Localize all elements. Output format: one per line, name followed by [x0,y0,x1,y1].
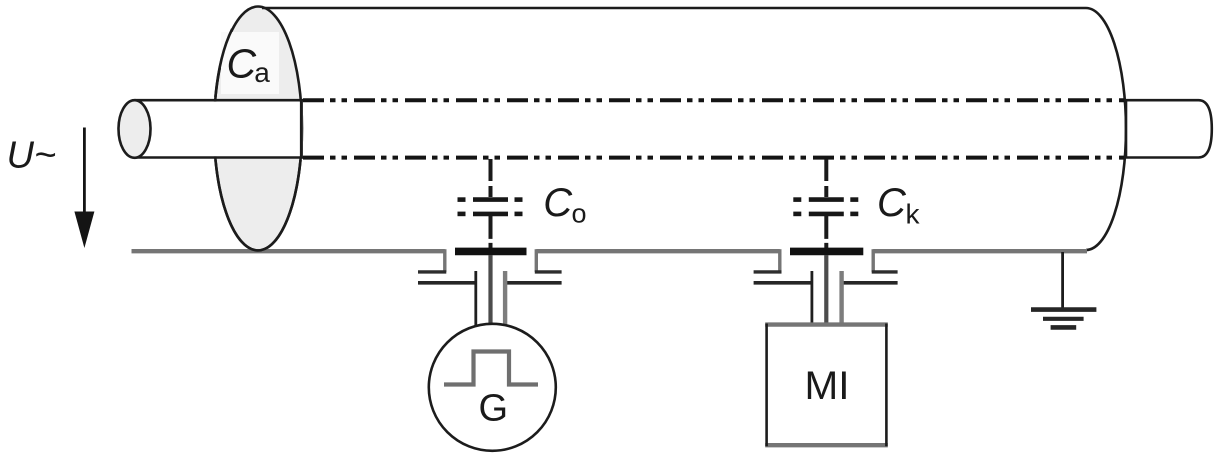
svg-text:a: a [254,57,270,88]
Co shield cup left [443,249,446,272]
conductor center line top (dash-dot-dot) [303,98,1124,102]
measuring instrument MI box [767,325,887,446]
conductor rod left end cap [119,100,151,158]
Co coupling bar on bus [455,248,527,256]
capacitor Ck top plate [793,197,858,202]
Ck coupling bar on bus [790,248,863,256]
coax lead to generator left conductor [474,271,477,327]
conductor rod left bottom edge [135,156,304,159]
arrow for applied voltage [83,128,86,219]
coax lead to MI center conductor [824,255,828,326]
disc Ca near edge across rod [300,99,303,159]
svg-text:U~: U~ [7,135,57,177]
capacitor Co bottom plate [458,212,523,217]
coax lead to generator right conductor [503,271,507,327]
capacitor Ck bottom plate [793,212,858,217]
svg-text:C: C [227,41,257,87]
coax lead to generator center conductor [488,255,492,327]
capacitor Co top plate [458,197,523,202]
conductor rod left body [136,102,303,157]
ground bus wire middle segment [536,249,780,253]
generator pulse symbol [444,352,538,385]
svg-text:G: G [479,388,509,430]
ground bus wire left segment [132,249,445,253]
Co shield cup right [535,249,538,272]
coax lead to MI left conductor [811,271,814,326]
wire capacitor Ck to bus (dashed) [824,216,828,250]
test object cylinder top edge [262,7,1086,10]
disc Ca outline over bus [216,160,301,250]
ground symbol [1031,307,1096,312]
test object cylinder right cap [1086,8,1126,250]
conductor rod left top edge [135,99,304,102]
generator G circle [429,324,556,451]
wire from center line to capacitor Co (dashed) [489,159,493,197]
disc Ca outline over label box [215,29,232,97]
Ck shield cup left [778,249,781,272]
ground bus wire right segment [873,249,1087,253]
conductor center line bottom (dash-dot-dot) [303,156,1124,160]
wire from center line to capacitor Ck (dashed) [824,159,828,197]
svg-text:MI: MI [805,364,850,408]
coax lead to MI right conductor [839,271,843,326]
Ck shield cup right [872,249,875,272]
coupling electrode disc Ca [214,7,302,251]
svg-text:C: C [877,181,907,225]
wire capacitor Co to bus (dashed) [489,216,493,250]
svg-text:C: C [543,181,573,225]
svg-text:k: k [906,199,921,230]
svg-text:o: o [572,199,587,229]
ground stem wire [1061,252,1064,310]
label box Ca [221,32,279,94]
conductor rod right stub [1126,100,1212,157]
